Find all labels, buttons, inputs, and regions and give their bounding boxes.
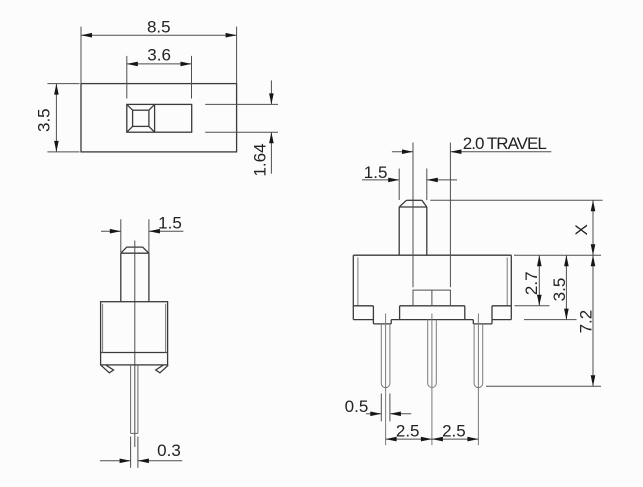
top view: switch body outline [81, 84, 237, 152]
front view: actuator stem [399, 200, 427, 255]
dimension 2.7 (body height) [522, 255, 542, 306]
svg-text:1.5: 1.5 [364, 163, 388, 182]
front view: actuator center line [412, 143, 414, 288]
front view: switch body outline [353, 255, 511, 319]
svg-text:2.7: 2.7 [522, 271, 541, 295]
extension line: base bottom level [524, 319, 577, 321]
dimension 8.5 (top view overall width) [81, 18, 237, 84]
dimension 1.5 (front actuator width) [362, 163, 457, 200]
dimension X (actuator height above body) [572, 200, 595, 255]
dimension 0.3 (pin thickness) [100, 437, 182, 468]
svg-text:3.5: 3.5 [550, 278, 569, 302]
svg-text:2.0 TRAVEL: 2.0 TRAVEL [463, 134, 547, 153]
side view: right mounting foot [156, 365, 169, 373]
dimension 1.5 (side view actuator width) [101, 214, 183, 254]
front view: center pin [428, 320, 437, 388]
dimension 2.5 (pin pitch right) [432, 422, 479, 442]
front view: travel extension line [449, 143, 451, 288]
svg-text:X: X [572, 224, 591, 235]
dimension 0.5 (pin width) [345, 393, 412, 421]
extension line: body top level [514, 254, 601, 256]
svg-text:0.5: 0.5 [345, 397, 369, 416]
svg-text:2.5: 2.5 [396, 422, 420, 441]
top view: actuator slot [127, 104, 192, 132]
svg-text:1.5: 1.5 [158, 214, 182, 233]
svg-text:1.64: 1.64 [251, 143, 270, 176]
svg-text:7.2: 7.2 [577, 310, 596, 334]
front view: pin center lines / 2.5 extension lines [386, 314, 479, 446]
front view: left pin [381, 324, 390, 388]
front view: right pin [474, 324, 483, 388]
extension line: body bottom level [515, 305, 550, 307]
svg-text:8.5: 8.5 [147, 18, 171, 37]
side view: switch body [101, 302, 168, 365]
side view: terminal pin [131, 365, 138, 434]
dimension 2.0 TRAVEL [392, 134, 551, 154]
front view: bottom profile with corner tabs and bosses [353, 306, 511, 324]
extension line: actuator top level [430, 199, 602, 201]
side view: center line [134, 241, 136, 448]
front view: slider knob box inside body [413, 290, 450, 306]
dimension 1.64 (slot height) [205, 80, 278, 176]
side view: left mounting foot [101, 365, 114, 373]
dimension 3.5 (top view height) [35, 84, 80, 152]
svg-text:3.5: 3.5 [35, 108, 54, 132]
svg-text:2.5: 2.5 [442, 422, 466, 441]
extension line: pin tip level [486, 385, 601, 387]
svg-text:3.6: 3.6 [147, 46, 171, 65]
dimension 3.6 (slot width) [127, 46, 192, 99]
svg-text:0.3: 0.3 [157, 441, 181, 460]
dimension 7.2 (overall height) [577, 255, 596, 386]
dimension 2.5 (pin pitch left) [386, 422, 432, 442]
dimension 3.5 (body height to base) [550, 255, 569, 319]
top view: slide knob (beveled square) [127, 104, 155, 132]
side view: actuator stem [121, 247, 149, 302]
